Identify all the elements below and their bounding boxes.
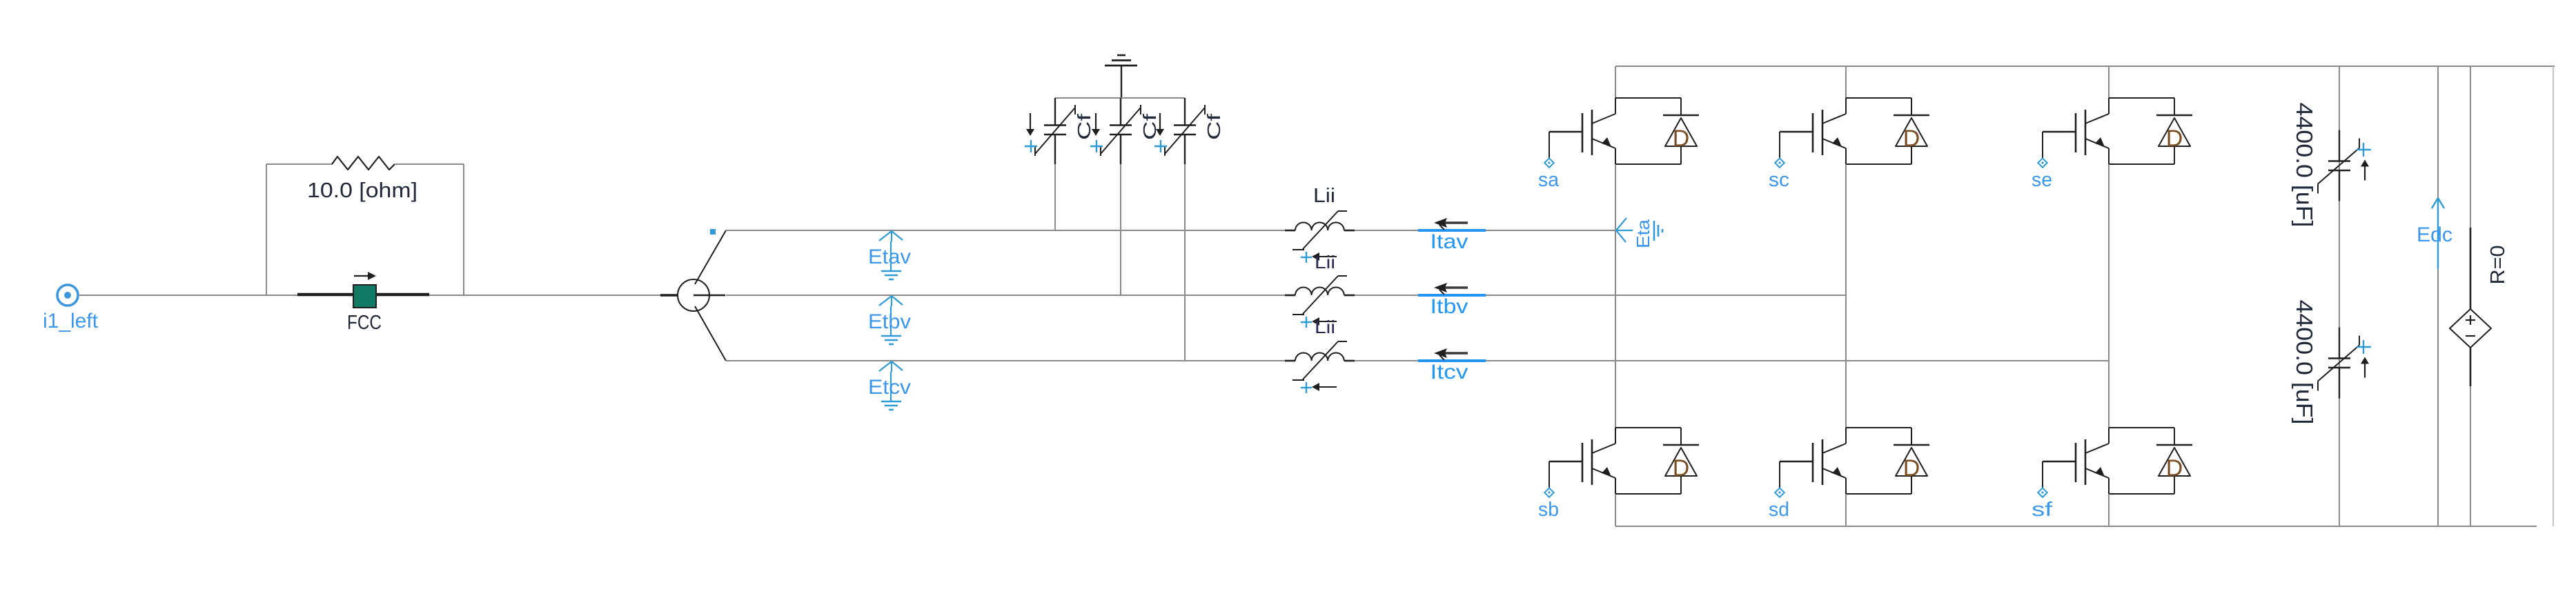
wire loop top-left (266, 163, 332, 165)
source lead top (black) (2470, 228, 2472, 309)
voltmeter Edc (2417, 198, 2452, 269)
variable inductor Lii (phase B) (1285, 276, 1355, 337)
label R=0 (2487, 246, 2509, 285)
svg-text:4400.0 [uF]: 4400.0 [uF] (2292, 103, 2317, 228)
variable inductor Lii (phase A) (1285, 211, 1355, 272)
label FCC (347, 312, 382, 334)
source diamond (2450, 309, 2491, 348)
IGBT sf with diode (2032, 428, 2192, 521)
IGBT se with diode (2032, 98, 2192, 191)
svg-text:Cf: Cf (1203, 113, 1224, 140)
wire right closure (2553, 66, 2554, 526)
FCC arrow (354, 272, 376, 280)
ammeter Itcv (1418, 348, 1486, 384)
svg-text:Cf: Cf (1074, 113, 1094, 140)
svg-text:se: se (2032, 169, 2052, 191)
svg-text:D: D (2166, 126, 2183, 152)
variable capacitor Cf (phase B) (1090, 98, 1160, 295)
FCC green square (353, 285, 376, 308)
IGBT sd with diode (1769, 428, 1929, 521)
svg-text:Lii: Lii (1315, 252, 1335, 272)
svg-text:sd: sd (1769, 499, 1789, 521)
wire loop top-right (395, 163, 464, 165)
svg-text:Itbv: Itbv (1430, 295, 1468, 318)
svg-text:R=0: R=0 (2487, 246, 2509, 285)
svg-text:Cf: Cf (1139, 113, 1160, 140)
voltmeter Eta (rotated) (1616, 218, 1662, 248)
wire phase C (726, 360, 2109, 361)
label i1_left (43, 310, 99, 332)
svg-text:sb: sb (1538, 499, 1559, 521)
resistor 10.0 ohm zigzag (332, 157, 395, 170)
wire leg top (se) (2108, 66, 2110, 98)
svg-text:Etbv: Etbv (868, 310, 911, 333)
svg-text:sf: sf (2032, 499, 2053, 521)
svg-text:D: D (2166, 455, 2183, 481)
wire phase A (726, 230, 1615, 231)
wire cap-bank rail (1055, 97, 1185, 99)
ammeter Itbv (1418, 283, 1486, 318)
wire leg bottom (sb) (1615, 494, 1616, 526)
IGBT sc with diode (1769, 98, 1929, 191)
node i1_left (current source port) (57, 285, 78, 306)
svg-text:sc: sc (1769, 169, 1789, 191)
ground (top, inverted) (1105, 55, 1137, 98)
svg-text:D: D (1903, 455, 1920, 481)
svg-text:Lii: Lii (1313, 185, 1335, 207)
wire leg bottom (sd) (1845, 494, 1847, 526)
label Lii (1313, 185, 1335, 207)
IGBT sb with diode (1538, 428, 1699, 521)
svg-text:i1_left: i1_left (43, 310, 99, 332)
voltmeter Etbv (868, 296, 911, 344)
svg-text:FCC: FCC (347, 312, 382, 334)
voltmeter Etav (868, 231, 911, 279)
wire leg top (sa) (1615, 66, 1616, 98)
breakout inner dash (694, 295, 725, 297)
wire leg middle (sc/sd) (1845, 164, 1847, 428)
svg-text:4400.0 [uF]: 4400.0 [uF] (2292, 300, 2317, 425)
wire leg middle (sa/sb) (1615, 164, 1616, 428)
voltmeter Etcv (868, 361, 911, 410)
svg-text:Eta: Eta (1633, 219, 1653, 248)
source lead bottom (black) (2470, 348, 2472, 386)
wire stub into breakout (black) (660, 294, 678, 297)
svg-text:Lii: Lii (1315, 317, 1335, 337)
wire source branch (2470, 66, 2471, 526)
svg-text:Etcv: Etcv (868, 376, 911, 399)
capacitor 4400uF (upper) (2292, 103, 2371, 228)
wire DC cap branch (2339, 66, 2340, 526)
variable capacitor Cf (phase A) (1025, 98, 1094, 230)
IGBT sa with diode (1538, 98, 1699, 191)
svg-text:Etav: Etav (868, 246, 911, 268)
svg-text:Edc: Edc (2417, 223, 2452, 246)
label resistor value 10.0 [ohm] (307, 178, 417, 202)
wire leg middle (se/sf) (2108, 164, 2110, 428)
svg-text:D: D (1673, 126, 1690, 152)
wire loop left vertical (266, 164, 267, 295)
wire phase B (726, 295, 1846, 296)
variable capacitor Cf (phase C) (1154, 98, 1224, 361)
node marker blue square (710, 229, 716, 235)
variable inductor Lii (phase C) (1285, 341, 1355, 393)
breakout diagonal down (695, 306, 726, 361)
svg-text:D: D (1673, 455, 1690, 481)
wire DC- rail (1615, 526, 2537, 527)
breakout diagonal up (695, 230, 726, 284)
svg-text:10.0 [ohm]: 10.0 [ohm] (307, 178, 417, 202)
FCC thick bar (297, 293, 429, 297)
svg-text:D: D (1903, 126, 1920, 152)
wire leg top (sc) (1845, 66, 1847, 98)
svg-text:Itav: Itav (1430, 230, 1468, 253)
ammeter Itav (1418, 218, 1486, 253)
wire DC+ rail (1615, 66, 2555, 67)
capacitor 4400uF (lower) (2292, 300, 2371, 425)
svg-text:Itcv: Itcv (1430, 361, 1468, 384)
wire leg bottom (sf) (2108, 494, 2110, 526)
wire Edc branch (2437, 66, 2439, 526)
svg-text:sa: sa (1538, 169, 1560, 191)
breakout circle (678, 279, 709, 311)
wire loop right vertical (463, 164, 464, 295)
wire main left (79, 295, 661, 296)
